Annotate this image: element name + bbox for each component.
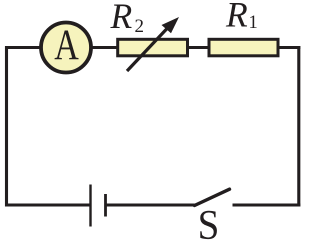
svg-text:R: R — [225, 0, 248, 34]
wire battery to bottom-left corner — [5, 204, 90, 207]
svg-text:R: R — [110, 0, 133, 36]
wire switch to battery — [106, 204, 196, 207]
svg-text:1: 1 — [249, 13, 258, 33]
wire right vertical — [297, 46, 300, 207]
wire top-left horizontal — [5, 46, 41, 49]
wire ammeter to R2 — [91, 46, 118, 49]
wire R2 to R1 — [187, 46, 210, 49]
label S — [198, 202, 220, 241]
label R1 — [225, 0, 258, 34]
wire left vertical — [5, 46, 8, 207]
label R2 — [110, 0, 145, 37]
resistor R2 (rheostat body) — [118, 39, 188, 56]
svg-text:2: 2 — [135, 16, 145, 37]
battery short plate — [104, 194, 107, 217]
wire R1 to top-right corner — [278, 46, 301, 49]
resistor R1 — [209, 39, 278, 56]
svg-text:A: A — [54, 21, 79, 69]
svg-text:S: S — [198, 202, 220, 241]
switch S blade — [195, 189, 230, 205]
rheostat arrow — [127, 17, 179, 71]
battery long plate — [89, 185, 91, 227]
wire bottom-right to switch — [233, 204, 301, 207]
ammeter A — [41, 21, 91, 72]
